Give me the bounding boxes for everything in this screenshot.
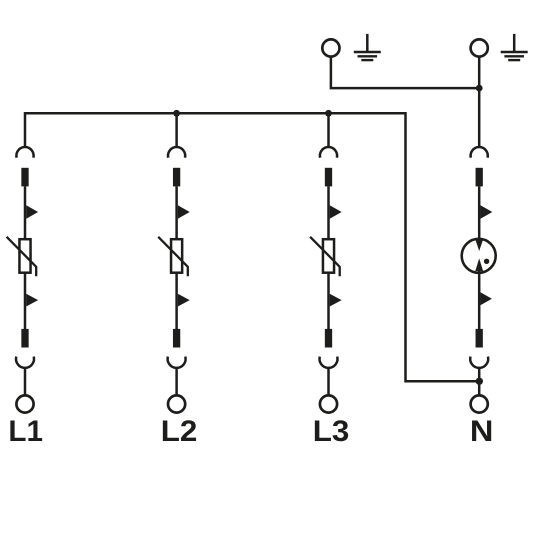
spark gap upper electrode (down arrow) bbox=[475, 239, 483, 251]
arrow (disconnect indicator) L2 upper bbox=[178, 205, 190, 219]
arrow (disconnect indicator) N lower bbox=[480, 292, 492, 305]
contact arc N bottom (plug cup) bbox=[470, 357, 488, 368]
wire N cup to terminal bbox=[478, 367, 481, 395]
contact arc L1 bottom (plug cup) bbox=[16, 357, 34, 368]
junction node bus/L2 bbox=[173, 110, 180, 117]
terminal N circle bbox=[471, 395, 488, 412]
fuse (thermal disconnect) L2 top bbox=[173, 168, 180, 187]
contact arc L3 bottom (plug cup) bbox=[320, 357, 338, 368]
ground symbol PE1 bbox=[354, 34, 381, 60]
varistor L2 diagonal stroke bbox=[158, 237, 188, 276]
spark gap (gas discharge tube) circle bbox=[462, 239, 496, 273]
varistor L2 body bbox=[171, 239, 182, 273]
ground symbol PE2 bbox=[501, 34, 528, 60]
wire N spark gap to fuse2 bbox=[478, 271, 481, 330]
varistor L1 body bbox=[19, 239, 30, 273]
wire main bus (L1 top, horizontal bus, right drop, to N bottom) bbox=[25, 113, 479, 381]
arrow (disconnect indicator) L3 lower bbox=[330, 294, 342, 307]
fuse (thermal disconnect) L1 top bbox=[21, 168, 28, 187]
arrow (disconnect indicator) L2 lower bbox=[178, 294, 190, 307]
spark gap lower electrode (up arrow) bbox=[475, 258, 483, 271]
svg-text:L1: L1 bbox=[8, 415, 43, 448]
fuse (thermal disconnect) L3 top bbox=[325, 168, 332, 187]
contact arc L2 bottom (plug cup) bbox=[168, 357, 186, 368]
svg-text:N: N bbox=[470, 414, 494, 447]
contact arc N top (socket) bbox=[471, 147, 488, 158]
wire L1 varistor to fuse2 bbox=[24, 273, 27, 329]
svg-text:L3: L3 bbox=[313, 415, 350, 448]
arrow (disconnect indicator) L1 upper bbox=[26, 205, 38, 219]
wire N top vertical (PE2 circle down to plug arc) bbox=[478, 57, 481, 147]
wire PE1 to N-top (down then right) bbox=[331, 57, 479, 88]
terminal PE1 circle (top left) bbox=[322, 39, 339, 56]
wire L1 fuse to varistor bbox=[24, 186, 27, 239]
wire L2 varistor to fuse2 bbox=[175, 273, 178, 329]
wire N fuse to spark gap bbox=[478, 186, 481, 240]
wire L2 cup to terminal bbox=[175, 367, 178, 395]
fuse (thermal disconnect) L1 bottom bbox=[21, 329, 28, 348]
wire L3 fuse to varistor bbox=[327, 186, 330, 239]
terminal L1 circle bbox=[16, 395, 33, 412]
wire L1 cup to terminal bbox=[24, 367, 27, 395]
terminal PE2 circle (top right) bbox=[471, 39, 488, 56]
wire L2 top vertical bbox=[175, 113, 178, 147]
fuse (thermal disconnect) L3 bottom bbox=[325, 329, 332, 348]
wire L3 cup to terminal bbox=[327, 367, 330, 395]
terminal L2 circle bbox=[168, 395, 185, 412]
junction node PE link / N bbox=[476, 85, 483, 92]
spark gap gas-filled dot bbox=[484, 259, 489, 264]
terminal L3 circle bbox=[320, 395, 337, 412]
wire L3 varistor to fuse2 bbox=[327, 273, 330, 329]
junction node bus/N bottom bbox=[476, 378, 483, 385]
contact arc L2 top (socket) bbox=[168, 147, 185, 158]
contact arc L3 top (socket) bbox=[320, 147, 337, 158]
fuse (thermal disconnect) L2 bottom bbox=[173, 329, 180, 348]
varistor L3 body bbox=[323, 239, 334, 273]
arrow (disconnect indicator) L1 lower bbox=[26, 294, 38, 307]
arrow (disconnect indicator) N upper bbox=[480, 205, 492, 219]
fuse (thermal disconnect) N top bbox=[476, 168, 483, 187]
varistor L1 diagonal stroke bbox=[7, 237, 37, 276]
wire L2 fuse to varistor bbox=[175, 186, 178, 239]
varistor L3 diagonal stroke bbox=[310, 237, 340, 276]
fuse (thermal disconnect) N bottom bbox=[476, 329, 483, 348]
junction node bus/L3 bbox=[325, 110, 332, 117]
svg-text:L2: L2 bbox=[161, 415, 198, 448]
contact arc L1 top (socket) bbox=[16, 147, 33, 158]
wire L3 top vertical bbox=[327, 113, 330, 147]
arrow (disconnect indicator) L3 upper bbox=[330, 205, 342, 219]
